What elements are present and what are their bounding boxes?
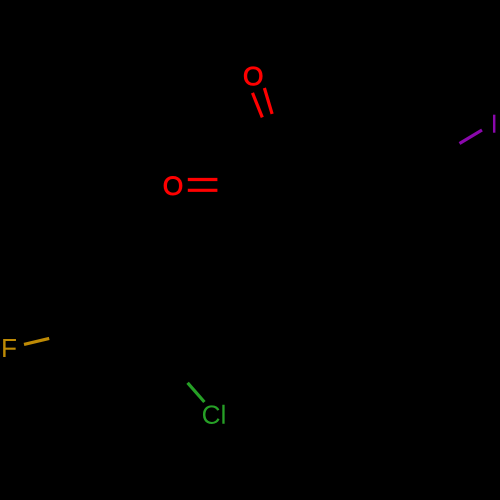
atom label Cl (chlorine): [203, 405, 225, 424]
atom label O (left carbonyl oxygen): [164, 177, 182, 196]
atom label O (top carbonyl oxygen): [244, 67, 262, 86]
atom label I (iodine): [493, 115, 495, 133]
atom label F (fluorine): [3, 339, 16, 357]
bond C=O top (red half of double bond): [253, 88, 273, 117]
bond C-F (gold half): [24, 338, 49, 344]
bond C-Cl (green half): [188, 383, 205, 402]
bond C=O left (red half of double bond): [188, 180, 218, 191]
bond C-I (purple half): [460, 130, 483, 144]
